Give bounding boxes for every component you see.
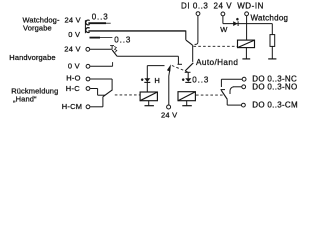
svg-text:Auto/Hand: Auto/Hand — [196, 58, 238, 67]
svg-text:DO 0..3-CM: DO 0..3-CM — [252, 101, 298, 110]
svg-text:24 V: 24 V — [65, 15, 81, 24]
svg-text:W: W — [220, 25, 228, 34]
svg-text:Vorgabe: Vorgabe — [23, 24, 52, 33]
svg-text:0..3: 0..3 — [92, 12, 109, 21]
svg-text:H-CM: H-CM — [62, 102, 83, 111]
svg-text:24 V: 24 V — [214, 2, 233, 11]
svg-text:„Hand“: „Hand“ — [13, 95, 37, 104]
svg-text:0..3: 0..3 — [114, 35, 131, 44]
svg-text:Watchdog: Watchdog — [251, 13, 289, 22]
svg-text:DI 0..3: DI 0..3 — [181, 2, 208, 11]
svg-text:H-O: H-O — [66, 74, 81, 83]
svg-text:H: H — [154, 76, 160, 85]
svg-text:0..3: 0..3 — [192, 76, 209, 85]
svg-text:H-C: H-C — [66, 84, 80, 93]
svg-text:Handvorgabe: Handvorgabe — [9, 53, 55, 62]
svg-text:WD-IN: WD-IN — [237, 2, 264, 11]
svg-text:24 V: 24 V — [161, 111, 177, 120]
svg-text:24 V: 24 V — [64, 45, 80, 54]
svg-text:0 V: 0 V — [68, 30, 80, 39]
svg-text:DO 0..3-NO: DO 0..3-NO — [252, 82, 297, 91]
svg-text:0 V: 0 V — [68, 61, 80, 70]
